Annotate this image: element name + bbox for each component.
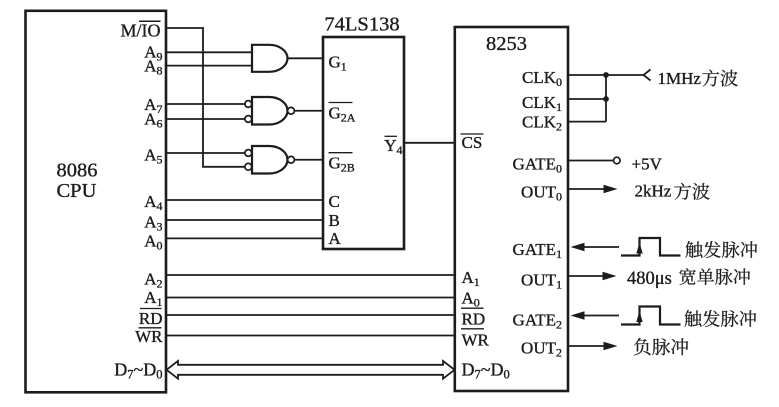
wire A0 to A	[166, 237, 323, 239]
svg-text:CPU: CPU	[57, 180, 97, 202]
wire A7 to gate2	[166, 103, 245, 105]
wire M/IO net: CPU to gate3 lower input	[166, 28, 245, 167]
svg-text:CS: CS	[462, 133, 483, 152]
wire GATE2 input	[580, 315, 619, 317]
wire A3 to B	[166, 219, 323, 221]
svg-text:8086: 8086	[57, 160, 98, 182]
annotation +5V	[632, 154, 663, 173]
timer U3 8253	[455, 27, 568, 391]
CPU pin label RD (active low)	[139, 309, 163, 329]
CPU pin label A9	[144, 43, 162, 64]
8253 pin label CLK1	[522, 93, 562, 114]
svg-text:8253: 8253	[486, 33, 527, 55]
wire vertical clock tie	[605, 75, 607, 122]
wire RD to 8253 RD	[166, 314, 455, 316]
wire A8 to gate1	[166, 65, 252, 67]
svg-text:OUT1: OUT1	[521, 271, 562, 292]
svg-text:D7~D0: D7~D0	[462, 360, 510, 382]
8253 pin label GATE1	[513, 240, 562, 261]
svg-text:B: B	[329, 211, 340, 230]
wire GATE0 to +5V	[568, 160, 614, 162]
CPU pin label A6	[144, 110, 162, 131]
CPU pin label A1	[144, 288, 162, 309]
CPU pin label A7	[144, 95, 162, 116]
annotation 2kHz square wave	[635, 182, 710, 201]
8253 pin label A0	[462, 289, 480, 310]
svg-text:1MHz: 1MHz	[658, 69, 702, 88]
wire OUT1 output	[568, 275, 604, 277]
wire OUT2 output	[568, 345, 605, 347]
CPU pin label A5	[144, 146, 162, 167]
svg-text:C: C	[329, 192, 340, 211]
svg-text:WR: WR	[462, 331, 490, 350]
trigger pulse waveform for GATE2	[621, 307, 681, 325]
svg-text:+5V: +5V	[632, 154, 663, 173]
wire gate1 output to G1	[288, 57, 324, 59]
wire CLK2	[568, 121, 606, 123]
wire CLK1	[568, 98, 606, 100]
CPU pin label A2	[144, 270, 162, 291]
svg-text:D7~D0: D7~D0	[114, 360, 162, 382]
wire gate3 output to G2B	[295, 159, 323, 161]
CPU pin label A3	[144, 213, 162, 234]
8253 pin label WR (active low)	[461, 329, 490, 350]
8253 pin label OUT0	[521, 183, 562, 204]
junction dot CLK1 tie	[603, 96, 609, 102]
74LS138 pin label G2B (active low)	[329, 153, 355, 175]
svg-text:WR: WR	[135, 327, 163, 346]
CPU pin label M/IO (IO active low)	[121, 21, 161, 41]
8253 pin label OUT1	[521, 271, 562, 292]
8253 pin label CLK0	[522, 68, 562, 89]
74LS138 pin label B	[329, 211, 340, 230]
wire CLK0 with clock source stub	[568, 74, 644, 76]
wire WR to 8253 WR	[166, 335, 455, 337]
decoder U2 74LS138	[323, 14, 404, 250]
wire Y4 to CS	[404, 142, 455, 144]
arrowhead GATE1 (points into chip)	[571, 243, 585, 252]
arrowhead GATE2 (points into chip)	[571, 311, 585, 320]
svg-text:74LS138: 74LS138	[324, 14, 399, 36]
negative-AND gate for G2A (A7,A6)	[245, 97, 294, 125]
wire GATE1 input	[580, 246, 619, 248]
8253 pin label CLK2	[522, 113, 562, 134]
arrowhead OUT0	[604, 185, 618, 194]
wire A5 to gate3	[166, 152, 245, 154]
svg-text:OUT0: OUT0	[521, 183, 562, 204]
svg-text:GATE0: GATE0	[513, 154, 562, 175]
arrowhead OUT2	[604, 342, 618, 351]
svg-text:RD: RD	[462, 310, 486, 329]
74LS138 pin label C	[329, 192, 340, 211]
annotation trigger pulse (GATE2)	[685, 310, 757, 327]
svg-text:OUT2: OUT2	[521, 339, 562, 360]
wire gate2 output to G2A	[295, 110, 323, 112]
svg-text:480μs: 480μs	[627, 269, 672, 289]
74LS138 pin label G2A (active low)	[329, 103, 356, 125]
negative-AND gate for G2B (A5,M/IO)	[245, 146, 294, 174]
svg-text:RD: RD	[139, 309, 163, 328]
8253 pin label GATE0	[513, 154, 562, 175]
CPU pin label A4	[144, 192, 162, 213]
+5V pull-up terminal (open circle)	[614, 157, 621, 164]
svg-text:GATE1: GATE1	[513, 240, 562, 261]
8253 pin label RD (active low)	[461, 308, 485, 328]
svg-text:M/IO: M/IO	[121, 21, 161, 41]
CPU U1 8086	[26, 11, 167, 393]
wire A2 to 8253 A1	[166, 274, 455, 276]
74LS138 pin label G1	[329, 53, 347, 74]
data bus D7~D0 double-headed arrow	[167, 361, 455, 379]
CPU pin label D7~D0	[114, 360, 162, 382]
8253 pin label D7~D0	[462, 360, 510, 382]
clock source connector (open arrow)	[644, 70, 651, 81]
annotation 480us wide single pulse	[627, 268, 750, 289]
annotation 1MHz square wave	[658, 69, 738, 88]
annotation negative pulse	[634, 338, 688, 355]
wire A6 to gate2	[166, 118, 245, 120]
wire A4 to C	[166, 199, 323, 201]
8253 pin label CS (active low)	[461, 133, 484, 152]
trigger pulse waveform for GATE1	[621, 238, 681, 256]
74LS138 pin label A	[329, 229, 342, 248]
svg-text:A: A	[329, 229, 342, 248]
wire A1 to 8253 A0	[166, 297, 455, 299]
svg-text:GATE2: GATE2	[513, 311, 562, 332]
svg-text:2kHz: 2kHz	[635, 182, 672, 201]
CPU pin label WR (active low)	[135, 327, 163, 346]
AND gate G1 (A9·A8)	[252, 45, 288, 72]
CPU pin label A0	[144, 232, 162, 253]
74LS138 pin label Y4 (active low)	[384, 136, 402, 157]
wire A9 to gate1	[166, 51, 252, 53]
junction dot CLK0 tie	[603, 72, 609, 78]
8253 pin label A1	[462, 268, 480, 289]
wire OUT0 output	[568, 188, 605, 190]
8253 pin label GATE2	[513, 311, 562, 332]
annotation trigger pulse (GATE1)	[686, 241, 758, 258]
8253 pin label OUT2	[521, 339, 562, 360]
arrowhead OUT1	[603, 272, 617, 281]
CPU pin label A8	[144, 57, 162, 78]
